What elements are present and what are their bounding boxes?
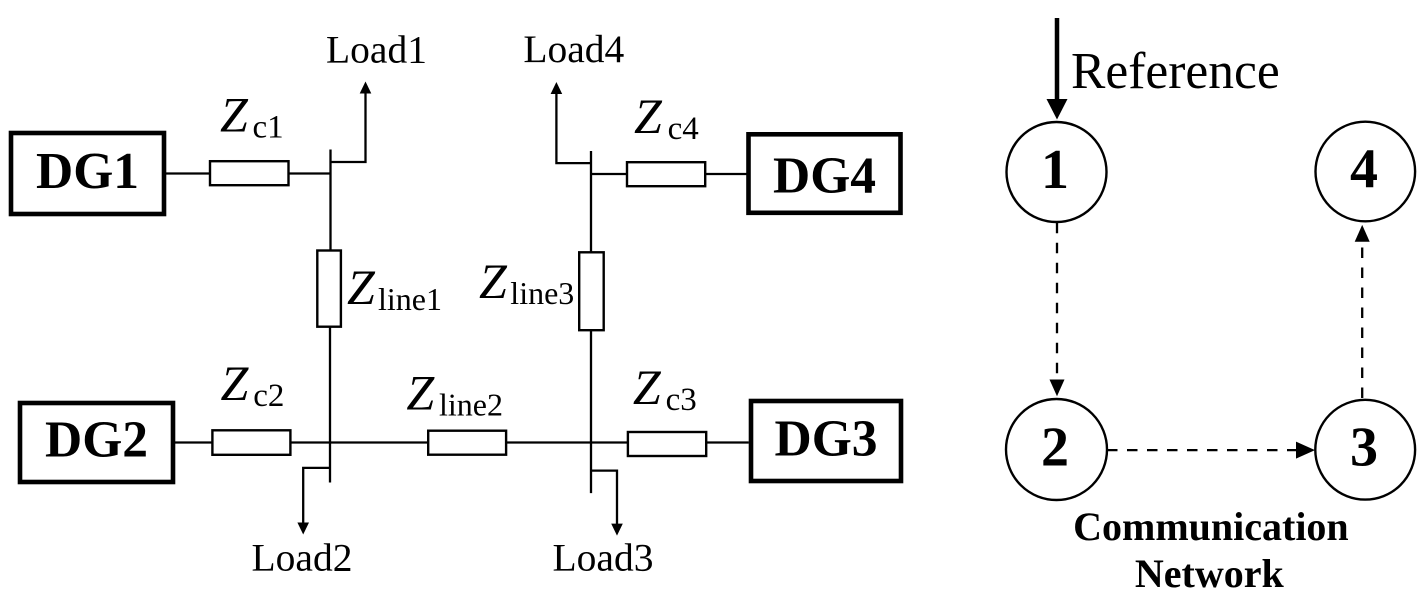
wire Zc3 to DG3 [706,441,749,443]
DG2 source box [20,403,173,482]
bus 1 upper bar [329,150,331,252]
svg-text:c1: c1 [253,110,284,146]
svg-text:Network: Network [1135,551,1285,596]
wire Load4 branch [556,94,591,164]
svg-text:4: 4 [1350,139,1378,201]
svg-text:Z: Z [347,259,376,315]
svg-text:Load2: Load2 [252,536,353,580]
svg-text:line2: line2 [439,386,503,422]
svg-text:Load1: Load1 [326,28,427,72]
svg-text:line1: line1 [378,281,442,317]
svg-text:Load4: Load4 [523,27,624,71]
impedance Zline1 [317,251,341,327]
wire bus 2 to Zc4 [591,173,627,175]
label Zline3 [479,253,574,311]
impedance Zline2 [428,431,506,455]
load arrow Load4 [551,82,563,94]
svg-text:DG3: DG3 [775,411,878,468]
label Zc2 [221,355,285,414]
svg-text:Z: Z [479,253,508,309]
label Communication Network [1073,504,1349,596]
svg-text:Z: Z [220,86,249,142]
svg-text:Z: Z [406,365,435,421]
comm node 4 [1316,122,1416,222]
impedance Zc1 [210,161,289,185]
load arrow Load1 [360,82,372,94]
comm node 2 [1006,399,1107,500]
DG4 source box [749,134,901,213]
svg-text:Z: Z [221,355,250,411]
label Zline1 [347,259,442,317]
wire DG2 to Zc2 [173,441,212,443]
wire Zc2 to Zline2 [290,441,428,443]
DG1 source box [11,133,164,214]
svg-text:Z: Z [634,88,663,144]
bus 1 lower bar [329,443,331,483]
svg-text:c4: c4 [668,111,699,147]
wire Load1 branch [331,93,366,162]
svg-text:Load3: Load3 [553,536,654,580]
svg-text:3: 3 [1350,417,1378,479]
label Zline2 [406,365,503,423]
comm link 1 to 2 [1050,223,1065,396]
wire Zline2 to Zc3 [506,441,628,443]
svg-text:1: 1 [1041,139,1069,201]
svg-text:c2: c2 [253,378,284,414]
load arrow Load2 [297,523,309,535]
svg-text:Communication: Communication [1073,504,1349,549]
label Zc1 [220,86,284,145]
wire Load3 branch [591,471,617,525]
wire DG1 to Zc1 [164,172,210,174]
impedance Zc3 [628,432,706,456]
comm link 2 to 3 [1107,442,1315,459]
comm node 1 [1007,122,1107,222]
svg-text:c3: c3 [666,382,697,418]
svg-text:Reference: Reference [1071,43,1280,100]
label Zc3 [633,359,697,418]
impedance Zline3 [579,252,604,330]
svg-text:Z: Z [633,359,662,415]
DG3 source box [751,401,901,481]
wire Load2 branch [303,468,330,524]
svg-text:DG1: DG1 [36,143,139,200]
wire Zline1 to bus 1 lower [329,327,331,443]
comm link 3 to 4 [1355,225,1370,398]
wire Zc1 to bus 1 [289,172,331,174]
bus 2 upper bar [590,151,592,252]
label Zc4 [634,88,699,147]
bus 2 lower bar [590,330,592,493]
impedance Zc2 [212,430,290,455]
svg-text:DG2: DG2 [45,412,148,469]
comm node 3 [1315,400,1415,500]
impedance Zc4 [627,162,705,186]
svg-text:2: 2 [1041,417,1069,479]
svg-text:DG4: DG4 [773,147,876,204]
wire Zc4 to DG4 [705,173,748,175]
reference input arrow [1047,18,1068,120]
load arrow Load3 [611,524,623,536]
svg-text:line3: line3 [510,275,574,311]
